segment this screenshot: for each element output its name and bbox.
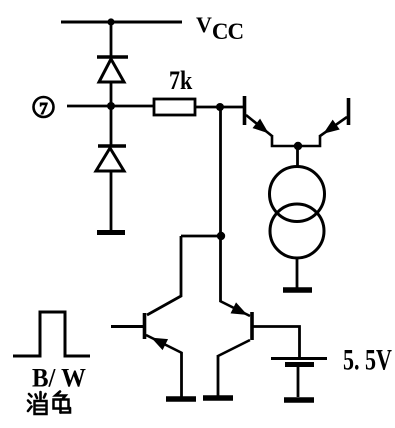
- terminal pin 7: [34, 97, 54, 118]
- ground (below diode D2): [97, 230, 125, 235]
- ground (below current source): [283, 287, 312, 293]
- wire rail to diode D1: [110, 22, 113, 58]
- ground (below Q3): [166, 396, 196, 402]
- current source I1 (two overlapping circles): [270, 167, 325, 259]
- resistor R1 7k: [154, 99, 195, 115]
- wire right branch node C down to Q4 emitter: [219, 236, 222, 302]
- wire D2 to ground: [110, 171, 113, 232]
- svg-text:7: 7: [39, 99, 48, 118]
- label B/W: [32, 365, 78, 390]
- wire node A to diode D2: [110, 106, 113, 146]
- node D (common emitter junction): [294, 142, 302, 150]
- wire left branch down to Q3 collector: [147, 236, 181, 315]
- wire battery to ground: [297, 366, 300, 397]
- label 消色 (hand-drawn glyphs): [25, 390, 75, 420]
- diode D1: [97, 57, 128, 82]
- node C (collector bus of bottom pair): [217, 232, 225, 240]
- wire node C horizontal to left branch: [181, 235, 221, 238]
- battery BT1 5.5V: [271, 359, 327, 365]
- wire current source to ground: [296, 258, 299, 289]
- ground (below battery): [284, 397, 314, 403]
- wire R1 to Q1 base: [195, 106, 244, 109]
- label 7k: [169, 66, 192, 92]
- wire B/W input to Q3 base: [111, 325, 144, 328]
- diode D2: [96, 146, 126, 171]
- node A (junction of diodes, pin7 wire, resistor wire): [107, 102, 115, 110]
- wire node D to current source: [296, 146, 299, 167]
- wire Q3 emitter to ground: [180, 352, 183, 397]
- wire Q4 base to battery: [253, 327, 300, 358]
- wire Q4 collector to ground: [217, 355, 220, 396]
- node B (resistor output / collector bus junction): [216, 103, 224, 111]
- transistor Q4 (bottom-right PNP): [218, 301, 252, 356]
- transistor Q1 (top-left NPN): [245, 96, 299, 146]
- ground (below Q4): [203, 395, 233, 401]
- B/W pulse waveform: [13, 312, 90, 356]
- label VCC: [196, 12, 243, 38]
- wire node B down to node C: [219, 107, 222, 236]
- transistor Q2 (top-right NPN): [298, 98, 349, 146]
- transistor Q3 (bottom-left PNP): [145, 313, 183, 353]
- label 5.5V: [343, 347, 392, 373]
- node junction on VCC rail: [107, 18, 114, 25]
- wire D1 to node A: [110, 82, 113, 106]
- wire pin7 to resistor R1: [67, 105, 154, 108]
- wire top VCC rail: [61, 21, 182, 24]
